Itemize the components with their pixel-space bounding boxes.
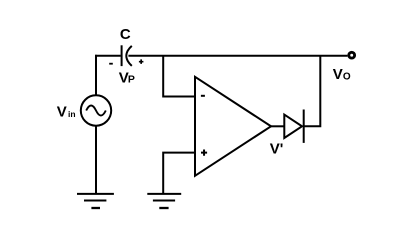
output terminal VO <box>349 52 355 58</box>
label VO <box>333 66 351 83</box>
ground (op-amp) <box>147 194 181 208</box>
op-amp U1 <box>195 77 271 176</box>
svg-text:in: in <box>68 109 76 119</box>
diode D1 <box>284 110 303 143</box>
wire Vin bottom lead to ground <box>95 125 97 193</box>
ground (Vin) <box>77 194 114 208</box>
wire Vin top lead up to top rail <box>95 55 97 96</box>
svg-text:P: P <box>128 74 135 86</box>
wire top rail left segment to capacitor <box>95 55 121 57</box>
voltage source Vin <box>81 95 111 125</box>
svg-text:V': V' <box>270 141 284 158</box>
label VP <box>119 69 135 86</box>
svg-text:V: V <box>57 103 67 120</box>
wire diode cathode up to top rail <box>304 55 321 127</box>
wire non-inverting input to ground <box>163 153 195 194</box>
op-amp non-inverting input plus symbol <box>201 150 207 156</box>
svg-text:V: V <box>333 66 343 83</box>
label Vin <box>57 103 76 120</box>
svg-text:O: O <box>343 72 351 83</box>
wire top rail from capacitor to output terminal <box>128 55 347 57</box>
op-amp inverting input minus symbol <box>201 95 205 97</box>
svg-text:C: C <box>120 26 131 43</box>
wire op-amp output to diode anode <box>271 125 285 127</box>
capacitor polarity plus <box>139 59 144 64</box>
wire from top rail down to inverting input <box>163 55 194 96</box>
capacitor C <box>122 45 132 66</box>
capacitor polarity minus <box>109 63 113 65</box>
